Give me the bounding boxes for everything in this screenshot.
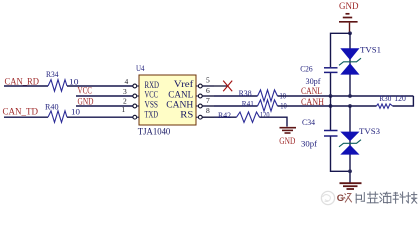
svg-text:CANL: CANL xyxy=(168,90,193,100)
hanzi hai xyxy=(380,193,382,195)
svg-text:C34: C34 xyxy=(302,118,315,127)
pin 3 bubble xyxy=(133,94,137,98)
wire xyxy=(67,85,133,87)
wire xyxy=(67,116,133,118)
TVS diode TVS3 xyxy=(349,106,351,183)
pin 6 bubble xyxy=(198,94,202,98)
wire top jog xyxy=(331,33,351,67)
svg-text:U4: U4 xyxy=(136,64,145,73)
TVS diode TVS1 xyxy=(349,33,351,96)
svg-text:1: 1 xyxy=(122,105,126,114)
svg-text:30pf: 30pf xyxy=(306,77,321,86)
pin 1 bubble xyxy=(133,115,137,119)
svg-text:CANL: CANL xyxy=(301,87,322,97)
hanzi ke xyxy=(395,192,397,203)
junction CANH/C34 xyxy=(329,104,333,108)
no-ERC X on Vref xyxy=(223,81,232,92)
svg-text:CANH: CANH xyxy=(301,98,324,108)
op-amp U4 body TJA1040 xyxy=(139,75,196,125)
junction CANL/TVS1 xyxy=(348,94,352,98)
svg-text:GND: GND xyxy=(279,137,295,147)
svg-text:R42: R42 xyxy=(218,111,231,120)
svg-text:TXD: TXD xyxy=(145,110,159,120)
watermark logo circle xyxy=(321,191,334,204)
svg-text:G: G xyxy=(337,193,344,204)
svg-text:C26: C26 xyxy=(300,65,313,74)
resistor R40 xyxy=(48,111,67,123)
hanzi ji xyxy=(407,193,409,203)
watermark hanzi 印蓝海科技 xyxy=(356,192,417,203)
pin 2 bubble xyxy=(133,104,137,108)
wire pin6 xyxy=(214,95,258,97)
pin 5 bubble xyxy=(198,84,202,88)
wire termination loop xyxy=(393,96,414,106)
svg-text:3: 3 xyxy=(123,87,127,96)
svg-text:RXD: RXD xyxy=(145,80,160,90)
svg-text:8: 8 xyxy=(206,106,210,115)
wire xyxy=(4,85,48,87)
junction top xyxy=(348,31,352,35)
wire xyxy=(4,116,48,118)
svg-text:5: 5 xyxy=(206,76,210,85)
svg-text:R30: R30 xyxy=(379,94,391,103)
svg-text:VSS: VSS xyxy=(145,100,159,110)
svg-text:R34: R34 xyxy=(46,70,59,79)
svg-text:R41: R41 xyxy=(242,99,254,108)
svg-text:VCC: VCC xyxy=(78,87,93,97)
svg-text:10: 10 xyxy=(71,107,80,116)
svg-text:Vref: Vref xyxy=(174,79,194,89)
ground symbol top (inverted) xyxy=(339,14,358,22)
svg-text:7: 7 xyxy=(206,96,210,105)
pin 7 bubble xyxy=(198,104,202,108)
svg-text:R40: R40 xyxy=(45,103,59,112)
pin 8 bubble xyxy=(198,115,202,119)
svg-text:CAN_TD: CAN_TD xyxy=(3,108,39,118)
wire pin5 to no-connect xyxy=(214,85,228,87)
hanzi yin xyxy=(355,194,357,203)
svg-text:6: 6 xyxy=(206,86,210,95)
junction CANL/C26 xyxy=(329,94,333,98)
pin 4 bubble xyxy=(133,84,137,88)
wire CANL xyxy=(278,95,414,97)
wire pin7 xyxy=(214,105,258,107)
svg-text:4: 4 xyxy=(125,77,129,86)
svg-text:RS: RS xyxy=(180,110,193,120)
hanzi lan xyxy=(368,193,378,195)
svg-text:30pf: 30pf xyxy=(301,139,317,148)
svg-text:120: 120 xyxy=(260,111,270,120)
ground (R42) xyxy=(280,128,297,133)
svg-text:TJA1040: TJA1040 xyxy=(138,127,171,137)
junction CANH/TVS3 xyxy=(348,104,352,108)
wire xyxy=(331,137,351,172)
junction bottom xyxy=(348,169,352,173)
ground bottom xyxy=(340,183,362,189)
svg-text:TVS3: TVS3 xyxy=(359,127,380,136)
svg-text:120: 120 xyxy=(394,94,406,103)
svg-text:R38: R38 xyxy=(239,89,252,98)
wire xyxy=(260,117,288,126)
resistor R34 xyxy=(48,80,67,92)
wire C34 branch xyxy=(330,96,332,130)
wire xyxy=(330,73,332,96)
svg-text:CANH: CANH xyxy=(166,100,194,110)
svg-text:GND: GND xyxy=(339,2,359,12)
svg-text:10: 10 xyxy=(69,77,79,86)
wire xyxy=(76,105,133,107)
wire CANH xyxy=(278,105,377,107)
wire pin8 xyxy=(214,116,237,118)
svg-text:TVS1: TVS1 xyxy=(360,45,381,54)
svg-text:VCC: VCC xyxy=(145,90,159,100)
wire xyxy=(76,95,133,97)
